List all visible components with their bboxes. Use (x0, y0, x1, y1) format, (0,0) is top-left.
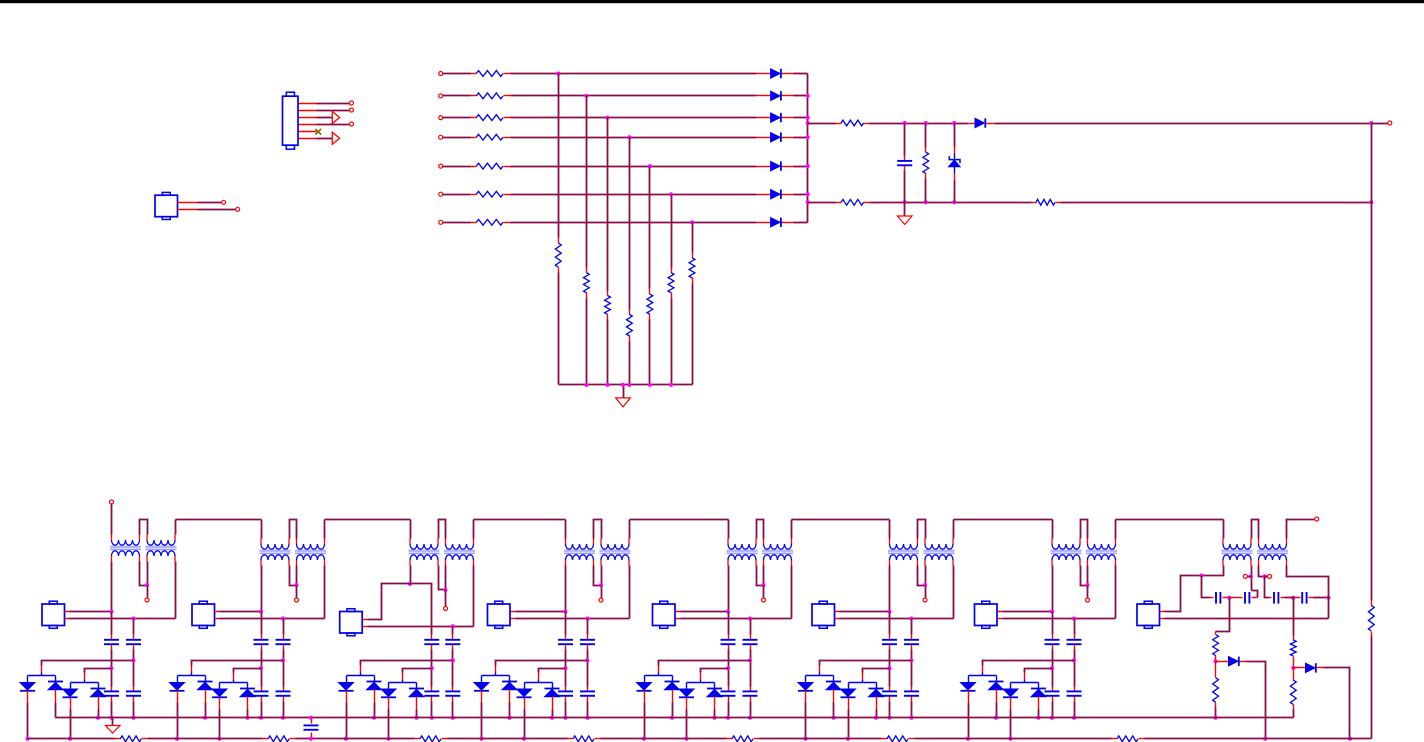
capacitor string upper leads (261, 635, 263, 640)
junction A bus2 (480, 737, 484, 741)
wire string mid (889, 650, 891, 687)
wire tap1 stub (495, 673, 497, 676)
diode D3 leads (757, 117, 771, 119)
wire input 2 lead (443, 95, 471, 97)
junction B bus1 (508, 716, 512, 720)
wire SB upper (587, 619, 589, 635)
diode D lead (98, 697, 100, 710)
capacitor C lower (743, 690, 758, 692)
wire T2 right riser (175, 520, 177, 535)
box pin bottom (835, 618, 840, 620)
wire input 3 lead (443, 117, 471, 119)
junction SB (1072, 617, 1076, 621)
resistor R right (1368, 605, 1374, 631)
wire tap2 (85, 669, 112, 673)
diode A drop (968, 676, 970, 683)
junction C81/C82 (1227, 596, 1231, 600)
junction tap (888, 666, 892, 670)
wire T2 right riser (1115, 520, 1117, 539)
wire tap2 (1025, 669, 1053, 673)
wire T15 right lower (1251, 566, 1253, 591)
wire T2 right lower (175, 562, 177, 619)
junction D bus1 (713, 716, 717, 720)
junction bus1 (910, 716, 914, 720)
wire box top jog (368, 584, 432, 635)
wire primary link U (594, 520, 602, 539)
node line6/v6 (669, 192, 673, 196)
capacitor C82 leads (1230, 597, 1243, 599)
wire secondary inner join (140, 562, 148, 586)
wire primary link U (918, 520, 926, 539)
wire blue pair2 (1011, 682, 1039, 684)
wire R82 to bus1 (1215, 708, 1217, 718)
resistor R84 (1290, 680, 1296, 704)
junction tap (910, 658, 914, 662)
resistor Rv4 (627, 314, 633, 336)
junction C bus2 (1009, 737, 1013, 741)
wire diode D to bus1 (416, 710, 418, 718)
wire T2 right riser (324, 520, 326, 539)
capacitor C lower (882, 690, 897, 692)
terminal (222, 200, 226, 204)
wire tap1 stub (360, 673, 362, 676)
junction C bus2 (387, 737, 391, 741)
wire T2 right riser (473, 520, 475, 539)
wire tap2 stub (700, 680, 702, 683)
wire diode C to bus2 (686, 710, 688, 739)
junction collector gnd (621, 383, 625, 387)
diode A lead (805, 691, 807, 703)
junction T1L (408, 582, 412, 586)
capacitor C upper (445, 639, 460, 641)
bus2 resistor (573, 736, 594, 742)
resistor R1 (476, 71, 503, 77)
wire string bottom (431, 702, 433, 718)
capacitor C upper (904, 639, 919, 641)
junction bus tap A (806, 121, 810, 125)
diode C lead (686, 698, 688, 710)
wire string mid (911, 650, 913, 687)
wire primary link U8 (1252, 520, 1259, 539)
junction box top / SA (110, 610, 114, 614)
wire input 6 lead (443, 194, 471, 196)
capacitor C lower (445, 690, 460, 692)
capacitor C81 (1215, 592, 1217, 604)
wire v3 upper (607, 118, 609, 291)
wire diode 3 to bus (794, 117, 808, 119)
wire pin1 (317, 103, 350, 105)
diode B drop (509, 676, 511, 682)
wire diode D to bus1 (714, 710, 716, 718)
diode B drop (374, 676, 376, 682)
bus2 wire (601, 738, 727, 740)
wire bus block5 (630, 519, 729, 521)
wire diode B to bus1 (205, 703, 207, 718)
diode D drop (247, 683, 249, 689)
junction B bus1 (832, 716, 836, 720)
junction tap (259, 666, 263, 670)
node line3/v3 (606, 116, 610, 120)
terminal input 2 (439, 94, 443, 98)
wire T2 right lower (791, 566, 793, 619)
junction C83/C84 (1291, 596, 1295, 600)
junction B1 (903, 200, 907, 204)
wire C82 step (1252, 591, 1258, 598)
diode C (212, 689, 227, 697)
capacitor C lower (424, 690, 439, 692)
junction bus1 (1072, 716, 1076, 720)
wire U1 pin2 (198, 209, 236, 211)
junction C bus2 (685, 737, 689, 741)
diode C drop (1010, 683, 1012, 690)
wire primary link U (140, 520, 148, 535)
capacitor C lower (580, 690, 595, 692)
resistor Rv7 leads (692, 253, 694, 258)
wire diode B to bus1 (374, 703, 376, 718)
junction R83 (1291, 666, 1295, 670)
resistor R2 (476, 93, 503, 99)
wire stub to terminal (1372, 123, 1388, 125)
diode B drop (996, 676, 998, 682)
resistor Rv3 leads (607, 291, 609, 296)
diode D (707, 688, 722, 690)
wire blue pair2 (849, 682, 877, 684)
wire string bottom (261, 702, 263, 718)
wire tap1 (192, 661, 284, 666)
wire T1 left lower (728, 566, 730, 612)
capacitor string lower leads (911, 687, 913, 692)
diode A (20, 683, 35, 691)
diode D drop (98, 683, 100, 689)
wire string mid (111, 650, 113, 687)
diode D lead (552, 697, 554, 710)
box pin bottom (215, 618, 220, 620)
wire secondary inner join (290, 566, 297, 586)
junction B3 (952, 200, 956, 204)
wire secondary inner join (918, 566, 926, 586)
wire R84 to bus1 (1293, 710, 1295, 718)
resistor R6 (476, 191, 503, 197)
junction bus (806, 116, 810, 120)
resistor RF (923, 152, 929, 173)
capacitor C lower (276, 690, 291, 692)
junction D bus1 (550, 716, 554, 720)
bus2 resistor leads (568, 738, 574, 740)
diode D (240, 688, 255, 690)
wire secondary inner join (757, 566, 764, 586)
wire T1 left lower (261, 566, 263, 612)
wire T15 left lower (1165, 566, 1224, 612)
wire C84 right (1314, 597, 1329, 599)
wire box bottom (70, 618, 176, 620)
transformer T11 (890, 544, 918, 549)
junction bus (806, 192, 810, 196)
junction D bus1 (246, 716, 250, 720)
ground symbol bus1 (105, 726, 120, 734)
wire v4 upper (629, 138, 631, 310)
diode C (381, 689, 396, 697)
wire v1 upper (558, 74, 560, 238)
diode A (798, 683, 813, 691)
capacitor string upper leads (728, 635, 730, 640)
wire diode B to bus1 (996, 703, 998, 718)
wire string bottom (283, 702, 285, 718)
wire box bottom (840, 618, 954, 620)
capacitor string lower leads (111, 687, 113, 692)
wire string bottom (452, 702, 454, 718)
diode B (367, 681, 382, 683)
diode A lead (346, 691, 348, 703)
terminal input 7 (439, 220, 443, 224)
wire diode C to bus2 (1010, 710, 1012, 739)
wire string bottom (1052, 702, 1054, 718)
wire tap2 (539, 669, 566, 673)
capacitor string lower leads (750, 687, 752, 692)
capacitor bus1-bus2 leads (311, 718, 313, 724)
diode D (1031, 688, 1046, 690)
wire diode B to bus1 (509, 703, 511, 718)
resistor Rv1 (555, 243, 561, 267)
wire box top (681, 611, 729, 613)
wire output B long (1061, 202, 1372, 204)
capacitor C lower (1045, 690, 1060, 692)
diode B lead (509, 690, 511, 703)
wire line 4 (511, 137, 757, 139)
resistor R2 leads (471, 95, 477, 97)
box pin bottom (998, 618, 1003, 620)
transformer T16 (1259, 544, 1287, 549)
wire input 1 lead (443, 73, 471, 75)
junction bus1 (586, 716, 590, 720)
bus2 resistor (420, 736, 441, 742)
wire SA upper (889, 612, 891, 635)
wire SA upper (261, 612, 263, 635)
transformer T7 (566, 544, 594, 549)
terminal input 3 (439, 116, 443, 120)
junction B bus1 (994, 716, 998, 720)
diode A drop (805, 676, 807, 683)
wire T2 right lower (629, 566, 631, 619)
wire tap2 stub (862, 680, 864, 683)
junction inner (762, 583, 766, 587)
wire string mid (133, 650, 135, 687)
wire blue pair2 (220, 682, 248, 684)
junction bus1 (1050, 716, 1054, 720)
wire secondary inner join (1081, 566, 1088, 586)
wire bus block7 (954, 519, 1053, 521)
wire tap1 stub (191, 673, 193, 676)
wire v5 lower (649, 320, 651, 385)
wire primary link U (290, 520, 297, 539)
wire tap1 stub (658, 673, 660, 676)
wire to terminal (763, 586, 765, 598)
box pin bottom (65, 618, 70, 620)
wire bus block8 (1116, 519, 1224, 521)
junction A bus2 (966, 737, 970, 741)
wire tap1 (820, 661, 912, 666)
wire string mid (283, 650, 285, 687)
resistor Rv1 leads (558, 238, 560, 244)
wire D81 out (1247, 662, 1266, 739)
wire primary link U (757, 520, 764, 539)
wire string mid (1074, 650, 1076, 687)
capacitor C lower (126, 690, 141, 692)
wire string bottom (750, 702, 752, 718)
box pin bottom (363, 626, 368, 628)
wire box bottom (516, 618, 630, 620)
diode D (869, 688, 884, 690)
junction inner (599, 583, 603, 587)
capacitor string upper leads (911, 635, 913, 640)
wire diode B to bus1 (833, 703, 835, 718)
wire tap1 stub (41, 673, 43, 676)
junction B bus1 (670, 716, 674, 720)
diode D lead (416, 697, 418, 710)
capacitor C upper (743, 639, 758, 641)
connector J1 pin 6 (299, 138, 317, 140)
wire string mid (565, 650, 567, 687)
junction A2 (924, 121, 928, 125)
wire T1 left lower (410, 566, 412, 584)
bus vertical right of diodes (807, 74, 809, 223)
wire T2 right riser (791, 520, 793, 539)
diode D (409, 688, 424, 690)
capacitor string upper leads (431, 635, 433, 640)
bus2 resistor leads (882, 738, 888, 740)
diode D81 leads (1216, 661, 1229, 663)
off-page arrow pin6 (332, 132, 339, 144)
wire tap1 (496, 661, 588, 666)
capacitor string upper leads (452, 635, 454, 640)
junction tap (748, 658, 752, 662)
diode D drop (714, 683, 716, 689)
resistor R83 (1290, 640, 1296, 656)
wire input 5 lead (443, 166, 471, 168)
diode A (474, 683, 489, 691)
wire T2 right lower (324, 566, 326, 619)
diode D lead (247, 697, 249, 710)
terminal secondary (145, 598, 149, 602)
wire string mid (1052, 650, 1054, 687)
junction B bus1 (372, 716, 376, 720)
transformer T2 (147, 540, 175, 545)
resistor R4 leads (471, 137, 477, 139)
junction bus1 (748, 716, 752, 720)
wire cap drop mid (1265, 577, 1269, 598)
terminal input 6 (439, 192, 443, 196)
capacitor string lower leads (889, 687, 891, 692)
wire tap2 stub (233, 680, 235, 683)
wire gnd B stub (904, 203, 906, 217)
wire diode 6 to bus (794, 194, 808, 196)
resistor RA leads (836, 123, 842, 125)
resistor Rv5 leads (649, 289, 651, 295)
diode B lead (833, 690, 835, 703)
wire blue pair1 (645, 675, 673, 677)
wire output A (870, 123, 968, 125)
capacitor string upper leads (1074, 635, 1076, 640)
diode B (198, 681, 213, 683)
bus1 horizontal (56, 717, 1294, 719)
diode C lead (1010, 698, 1012, 710)
capacitor C upper (558, 639, 573, 641)
wire primary link U (439, 520, 446, 539)
junction collector (627, 383, 631, 387)
junction cap bus2 (309, 737, 313, 741)
junction A bus2 (344, 737, 348, 741)
wire output B from bus (808, 202, 836, 204)
diode D drop (416, 683, 418, 689)
resistor RB (841, 199, 864, 205)
bus2 resistor leads (415, 738, 421, 740)
wire box top (516, 611, 566, 613)
transformer T9 (728, 544, 756, 549)
wire v4 lower (629, 342, 631, 385)
bus2 wire (448, 738, 568, 740)
wire v7 lower (692, 284, 694, 385)
junction right riser (1327, 596, 1331, 600)
diode A drop (177, 676, 179, 683)
bus2 wire (760, 738, 882, 740)
collector bus (559, 384, 693, 386)
resistor R82 leads (1215, 662, 1217, 678)
box pin bottom (511, 618, 516, 620)
capacitor string upper leads (111, 635, 113, 640)
junction D81 bus2 (1263, 737, 1267, 741)
bus2 resistor leads (115, 738, 121, 740)
transformer T13 (1052, 544, 1080, 549)
junction tap (586, 658, 590, 662)
connector J1 pin 5 (299, 131, 317, 133)
capacitor C lower (254, 690, 269, 692)
capacitor C lower (904, 690, 919, 692)
wire blue pair2 (687, 682, 715, 684)
diode B drop (833, 676, 835, 682)
wire stub circle2 (1265, 576, 1268, 578)
wire box bottom (368, 626, 474, 628)
diode A drop (644, 676, 646, 683)
diode C (679, 689, 694, 697)
capacitor C84 leads (1285, 597, 1294, 599)
terminal output A (1388, 121, 1392, 125)
capacitor C upper (1045, 639, 1060, 641)
terminal sec 2 (1268, 574, 1272, 578)
wire diode 2 to bus (794, 95, 808, 97)
capacitor C83 (1273, 592, 1275, 604)
diode C lead (848, 698, 850, 710)
capacitor C82 (1244, 592, 1246, 604)
junction bus1 (259, 716, 263, 720)
wire tap1 (659, 661, 751, 666)
box U3 (340, 612, 363, 634)
resistor RB leads (836, 202, 842, 204)
wire right vertical (1371, 124, 1373, 203)
transformer T8 (601, 544, 629, 549)
wire v7 upper (692, 223, 694, 253)
wire T1 left lower (111, 562, 113, 612)
capacitor C lower (104, 690, 119, 692)
wire string mid (587, 650, 589, 687)
wire diode A to bus2 (177, 703, 179, 739)
box U4 (488, 604, 511, 626)
wire output A long (995, 123, 1372, 125)
junction cap bus1 (309, 716, 313, 720)
junction tap (564, 666, 568, 670)
junction tap (451, 658, 455, 662)
wire string bottom (911, 702, 913, 718)
resistor RB2 leads (1032, 202, 1037, 204)
capacitor string upper leads (587, 635, 589, 640)
